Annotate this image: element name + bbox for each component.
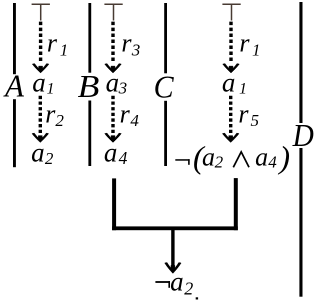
svg-text:1: 1 <box>239 80 247 97</box>
svg-text:r: r <box>238 99 249 128</box>
svg-text:1: 1 <box>252 40 261 59</box>
svg-text:A: A <box>3 69 25 104</box>
svg-text:a: a <box>202 142 215 171</box>
svg-text:a: a <box>222 67 236 97</box>
svg-text:C: C <box>154 70 175 105</box>
svg-text:3: 3 <box>131 40 141 59</box>
svg-text:B: B <box>78 69 100 104</box>
svg-text:1: 1 <box>47 80 55 97</box>
svg-text:4: 4 <box>119 148 128 168</box>
svg-text:4: 4 <box>130 111 139 130</box>
svg-text:r: r <box>239 29 250 58</box>
svg-text:a: a <box>106 67 120 97</box>
svg-text:r: r <box>121 29 132 58</box>
svg-text:a: a <box>31 138 44 168</box>
svg-text:a: a <box>32 67 46 97</box>
svg-text:5: 5 <box>251 111 260 130</box>
svg-text:3: 3 <box>118 79 128 98</box>
svg-text:a: a <box>170 266 184 296</box>
svg-text:2: 2 <box>55 111 64 130</box>
svg-text:r: r <box>47 29 58 58</box>
svg-text:D: D <box>292 118 314 153</box>
svg-text:r: r <box>120 99 131 128</box>
svg-text:2: 2 <box>215 153 224 172</box>
svg-text:a: a <box>255 142 268 171</box>
svg-text:): ) <box>277 139 290 175</box>
svg-text:4: 4 <box>268 153 277 172</box>
svg-text:2: 2 <box>184 278 193 298</box>
svg-text:1: 1 <box>60 40 69 59</box>
svg-text:2: 2 <box>45 149 54 168</box>
svg-text:a: a <box>104 138 118 168</box>
